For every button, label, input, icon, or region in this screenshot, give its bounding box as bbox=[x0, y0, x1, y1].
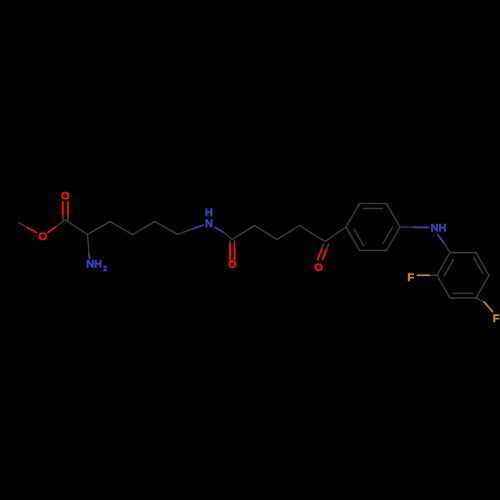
wire c4 to amide N bbox=[178, 229, 194, 235]
wire d3 to ketone C bbox=[300, 226, 326, 242]
amide C=O double bond bbox=[230, 241, 234, 244]
wire d1 to d2 bbox=[255, 226, 278, 240]
svg-text:O: O bbox=[228, 259, 237, 271]
wire amide N to amide C bbox=[215, 227, 224, 232]
wire ring2 L vertex to F1 bbox=[429, 274, 437, 276]
ring2 aromatic inner bonds bbox=[444, 257, 482, 293]
svg-text:F: F bbox=[407, 272, 414, 284]
svg-text:O: O bbox=[61, 190, 70, 202]
wire ring1 R vertex to right NH bbox=[400, 226, 413, 228]
wire ring2 BR vertex to F2 bbox=[476, 298, 484, 302]
svg-text:2: 2 bbox=[103, 264, 107, 273]
wire ketone C to ring1 L vertex bbox=[325, 227, 346, 242]
wire amide C to d1 bbox=[232, 226, 254, 240]
wire ester O to carbonyl C bbox=[48, 226, 57, 232]
svg-text:N: N bbox=[205, 218, 213, 230]
wire alpha C to c1 bbox=[88, 222, 111, 235]
wire carbonyl C to alpha C bbox=[65, 220, 87, 235]
svg-text:NH: NH bbox=[86, 259, 102, 271]
wire methyl CH3 to ester O bbox=[19, 223, 28, 228]
wire c1 to c2 bbox=[110, 222, 133, 235]
benzene ring 1 bbox=[346, 204, 400, 251]
svg-text:O: O bbox=[314, 262, 323, 274]
svg-text:O: O bbox=[38, 231, 47, 243]
ring1 aromatic inner bonds bbox=[354, 208, 392, 245]
wire d2 to d3 bbox=[277, 226, 300, 240]
svg-text:NH: NH bbox=[431, 223, 447, 235]
benzene ring 2 bbox=[437, 253, 489, 299]
wire c2 to c3 bbox=[133, 222, 156, 235]
ketone C=O double bond bbox=[318, 248, 327, 259]
ester C=O double bond bbox=[63, 202, 68, 216]
wire alpha C to NH2 nitrogen bbox=[88, 235, 90, 255]
svg-text:F: F bbox=[493, 313, 500, 325]
wire c3 to c4 bbox=[155, 222, 178, 235]
wire right NH to ring2 TL vertex bbox=[438, 235, 445, 244]
